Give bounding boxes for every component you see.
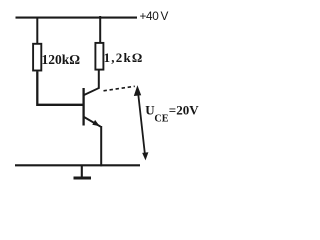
wire: R2 bottom lead (collector lead) xyxy=(98,70,100,89)
svg-text:1,2kΩ: 1,2kΩ xyxy=(104,50,144,65)
wire: +40V supply rail xyxy=(16,17,138,19)
svg-text:CE: CE xyxy=(154,114,168,125)
ground xyxy=(74,165,92,178)
svg-text:=20V: =20V xyxy=(169,102,199,117)
transistor Q1 xyxy=(84,88,101,127)
wire: R1 top lead xyxy=(36,17,38,45)
wire: R1 bottom lead and base wire xyxy=(37,72,83,105)
wire: ground rail xyxy=(15,164,140,166)
wire: R2 top lead xyxy=(99,16,101,44)
resistor R1 body xyxy=(33,44,41,71)
dashed line from collector node to voltage arrow xyxy=(104,86,135,91)
svg-text:+40 V: +40 V xyxy=(140,9,169,23)
svg-text:120kΩ: 120kΩ xyxy=(42,52,81,67)
resistor R2 body xyxy=(95,43,103,70)
voltage arrow U_CE (double headed) xyxy=(134,85,149,160)
label U_CE = 20V xyxy=(145,102,199,124)
wire: emitter down lead xyxy=(100,126,102,166)
